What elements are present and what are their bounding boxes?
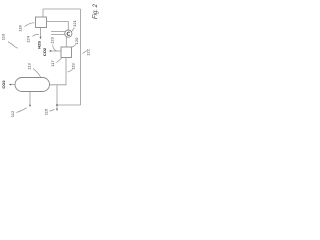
wire box 120 bottom to vessel <box>50 58 66 85</box>
stream arrow CO2 out of box 120 left <box>51 50 62 52</box>
leader for 123 <box>53 45 57 51</box>
leader for 121 <box>71 28 74 32</box>
leader for 112 <box>17 108 27 113</box>
wire bottom horizontal <box>57 104 81 106</box>
parallel pipe lower into pump <box>51 34 66 36</box>
wire pump to box 120 <box>65 37 67 47</box>
leader for 124 <box>33 34 40 36</box>
branch wire down to bottom outlet <box>56 85 58 109</box>
stream arrow vessel bottom outlet <box>29 92 31 106</box>
svg-text:123: 123 <box>50 36 55 43</box>
svg-text:120: 120 <box>74 37 79 44</box>
stream arrow CO2 out of vessel left <box>11 84 16 86</box>
svg-text:CO2: CO2 <box>1 80 6 89</box>
leader for 118 <box>25 23 35 27</box>
wire top horizontal <box>43 8 81 10</box>
svg-text:119: 119 <box>71 63 76 70</box>
parallel pipe upper into pump <box>51 31 66 33</box>
svg-text:110: 110 <box>1 33 6 40</box>
leader for 110 (wavy) <box>8 42 18 49</box>
leader for 119 <box>68 70 73 73</box>
svg-text:117: 117 <box>50 60 55 67</box>
wire from box 118 right to pump riser <box>47 22 69 31</box>
stream arrow H2S below box 118 <box>40 28 42 38</box>
leader for 116 <box>50 109 55 111</box>
arrowhead bottom outlet <box>56 109 58 111</box>
svg-text:118: 118 <box>18 25 23 32</box>
svg-text:113: 113 <box>27 63 32 70</box>
pump circle 121 <box>65 30 72 37</box>
svg-text:Fig. 2: Fig. 2 <box>93 3 99 19</box>
svg-text:124: 124 <box>26 35 31 42</box>
svg-text:CO2: CO2 <box>42 47 47 56</box>
vessel 113 (horizontal drum) <box>15 78 50 92</box>
leader for 117 <box>57 58 62 62</box>
unit box 118 <box>36 17 47 28</box>
svg-text:122: 122 <box>86 48 91 55</box>
pump inner curl <box>67 32 70 35</box>
wire riser from box 118 top <box>42 9 44 17</box>
svg-text:121: 121 <box>72 19 77 26</box>
svg-text:H2S: H2S <box>37 41 42 49</box>
svg-text:116: 116 <box>44 108 49 115</box>
junction node <box>56 104 58 106</box>
leader for 120 <box>72 45 76 48</box>
leader for 113 <box>33 69 41 77</box>
unit box 120 <box>61 47 72 58</box>
leader for 122 <box>83 51 88 54</box>
svg-text:112: 112 <box>10 110 15 117</box>
wire right vertical 122 <box>80 9 82 105</box>
